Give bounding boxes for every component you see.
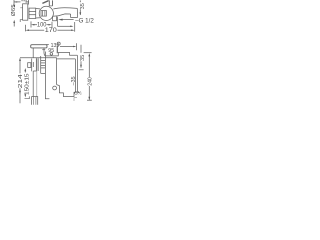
- long vertical line with foot: [45, 52, 49, 99]
- dimension 150±15 vertical: [24, 68, 29, 99]
- leader arrow to shower port with G 1/2 label: [58, 19, 73, 21]
- wall flange (front view): [23, 4, 28, 20]
- extension line from shower port: [57, 17, 59, 27]
- flange diameter arrows: [13, 5, 22, 27]
- down tube to hose connector: [33, 71, 37, 97]
- svg-text:–35: –35: [71, 76, 77, 85]
- dimension 170: [25, 22, 74, 32]
- small circle on wall edge: [53, 86, 57, 90]
- spout outline: [53, 8, 78, 18]
- svg-text:G½: G½: [74, 90, 82, 96]
- top extension line of side view: [20, 57, 57, 59]
- small circle detail upper: [57, 42, 60, 45]
- svg-text:240: 240: [87, 77, 93, 86]
- label 95 with leader dash: [42, 46, 57, 53]
- small dimension arrow to wall face: [60, 43, 77, 50]
- side view body outline: [33, 48, 77, 58]
- svg-text:95: 95: [48, 48, 54, 54]
- right vertical dimension 35 at spout end: [79, 0, 81, 15]
- neck to cartridge: [36, 9, 40, 19]
- cartridge circle: [39, 6, 53, 20]
- lever handle (front view): [42, 0, 52, 6]
- svg-text:35: 35: [80, 55, 86, 61]
- dimension 240 vertical: [84, 53, 92, 100]
- spout funnel (side view): [28, 56, 46, 73]
- svg-text:35: 35: [80, 3, 86, 9]
- bottom shower port (front view): [53, 16, 57, 20]
- hose connector nut: [32, 97, 38, 105]
- right small dimension 35: [79, 45, 84, 70]
- svg-text:214: 214: [18, 74, 24, 88]
- label 139 with leader dash: [46, 44, 49, 46]
- dimension 214 vertical: [19, 58, 21, 104]
- short dimension line to spout end: [58, 26, 74, 28]
- small circle detail lower: [50, 53, 53, 56]
- wall outline: [57, 55, 80, 96]
- tiny G 1/2 bottom label: [74, 90, 82, 101]
- cartridge inner detail: [41, 11, 46, 17]
- svg-text:170: 170: [45, 28, 58, 34]
- dimension 100: [31, 21, 52, 28]
- svg-text:–G 1/2: –G 1/2: [75, 17, 94, 24]
- lever bar (side view): [31, 45, 47, 48]
- body ring block with grooves: [29, 8, 36, 18]
- svg-text:150±15: 150±15: [24, 74, 30, 96]
- top width dimension line: [14, 0, 29, 5]
